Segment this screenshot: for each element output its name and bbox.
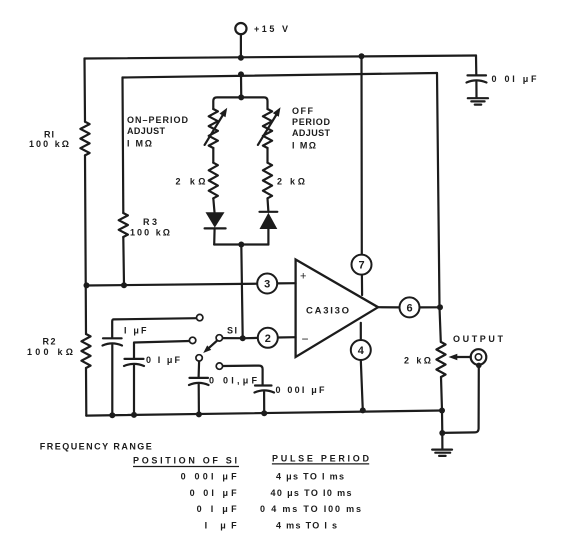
svg-text:PERIOD: PERIOD [292, 117, 331, 127]
svg-text:FREQUENCY RANGE: FREQUENCY RANGE [40, 441, 152, 451]
svg-text:100 kΩ: 100 kΩ [130, 228, 170, 238]
svg-text:ADJUST: ADJUST [127, 126, 166, 136]
svg-text:I MΩ: I MΩ [127, 139, 152, 149]
svg-text:0 0I μF: 0 0I μF [190, 488, 238, 498]
svg-text:0 0I,μF: 0 0I,μF [209, 375, 258, 385]
svg-text:100 kΩ: 100 kΩ [27, 347, 73, 357]
svg-text:6: 6 [406, 302, 412, 314]
svg-text:0 I μF: 0 I μF [197, 504, 238, 514]
svg-text:I μF: I μF [124, 326, 147, 336]
svg-text:2: 2 [265, 333, 271, 345]
svg-text:2 kΩ: 2 kΩ [404, 356, 431, 366]
svg-text:+: + [300, 271, 306, 283]
svg-text:0 I μF: 0 I μF [146, 355, 181, 365]
svg-text:0 4 ms TO I00 ms: 0 4 ms TO I00 ms [260, 504, 361, 514]
svg-text:7: 7 [358, 260, 364, 272]
svg-text:2 kΩ: 2 kΩ [176, 177, 206, 187]
svg-text:I μF: I μF [205, 520, 238, 530]
svg-text:2 kΩ: 2 kΩ [277, 177, 305, 187]
svg-text:RI: RI [44, 130, 54, 140]
svg-text:OUTPUT: OUTPUT [453, 334, 504, 344]
svg-text:CA3I3O: CA3I3O [306, 305, 349, 316]
svg-text:ADJUST: ADJUST [292, 128, 331, 138]
svg-text:3: 3 [264, 279, 270, 291]
svg-text:+15 V: +15 V [254, 24, 288, 34]
svg-text:POSITION OF SI: POSITION OF SI [133, 455, 237, 465]
svg-text:0 00I μF: 0 00I μF [181, 472, 238, 482]
svg-text:OFF: OFF [292, 106, 314, 116]
svg-text:0 0I μF: 0 0I μF [492, 74, 538, 84]
svg-text:−: − [302, 332, 309, 346]
svg-text:I MΩ: I MΩ [292, 141, 316, 151]
svg-text:0 00I μF: 0 00I μF [276, 385, 326, 395]
svg-text:ON–PERIOD: ON–PERIOD [127, 115, 189, 125]
svg-text:PULSE PERIOD: PULSE PERIOD [272, 453, 370, 463]
svg-text:40 μs TO I0 ms: 40 μs TO I0 ms [271, 488, 352, 498]
svg-text:4 ms TO I s: 4 ms TO I s [276, 520, 337, 530]
svg-text:SI: SI [227, 325, 237, 335]
svg-text:100 kΩ: 100 kΩ [29, 139, 69, 149]
svg-text:4 μs TO I ms: 4 μs TO I ms [276, 472, 344, 482]
svg-text:4: 4 [358, 345, 365, 357]
svg-text:R2: R2 [43, 337, 56, 347]
svg-text:R3: R3 [143, 217, 157, 227]
